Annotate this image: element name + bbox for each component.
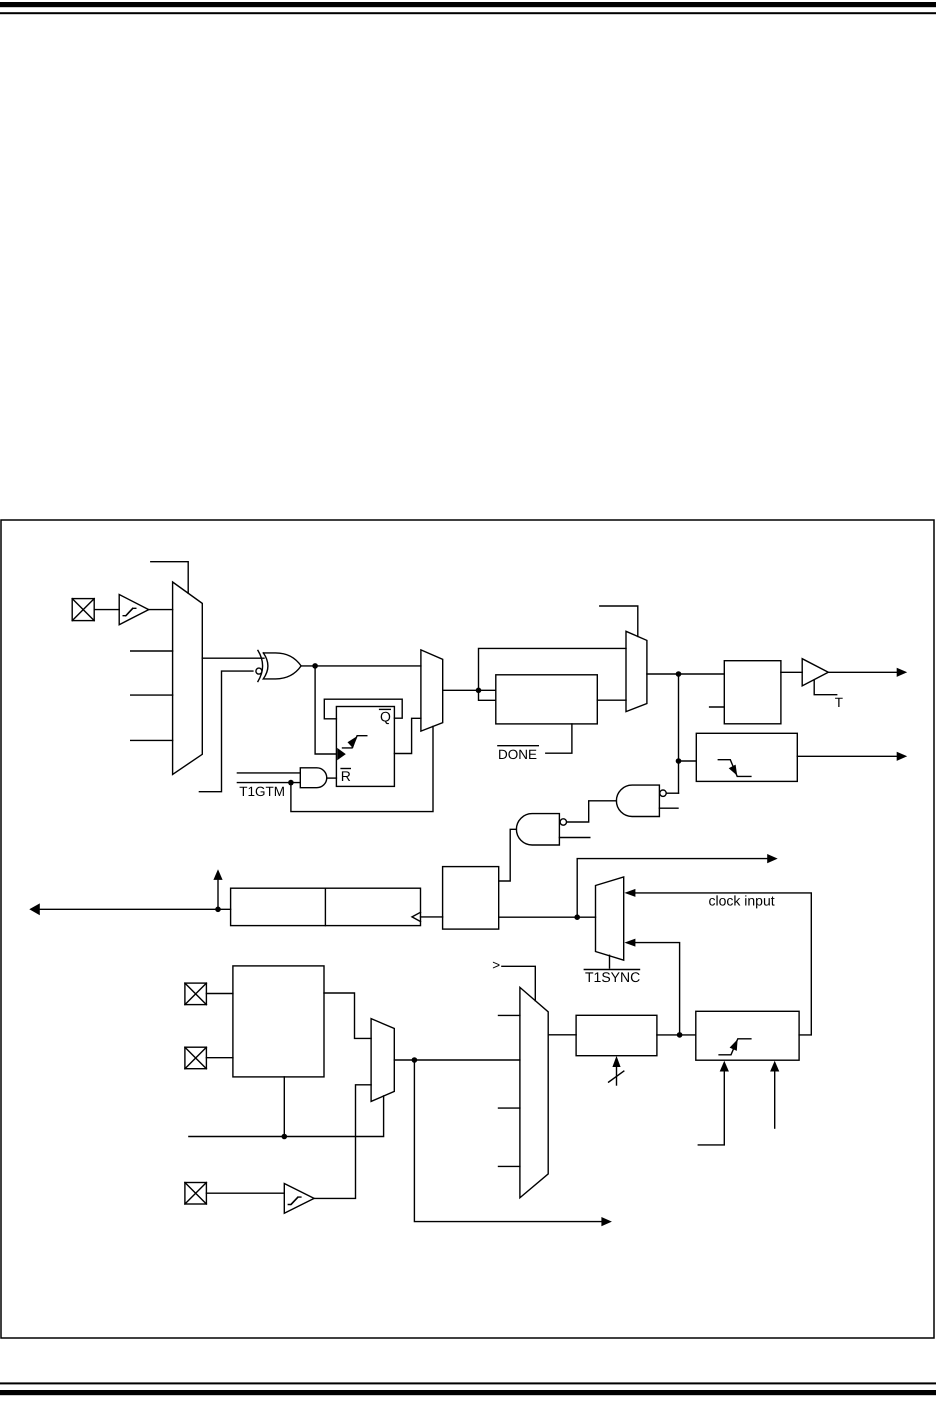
wire (interrupt arrow up) (213, 869, 222, 909)
wire (node I down, arrow right) (414, 1060, 612, 1226)
node C (676, 671, 682, 677)
wire (TMR1 bus arrow left) (29, 903, 230, 915)
wire (inverted input to U2) (199, 671, 253, 792)
wire (U15 to M6 input 2) (314, 1085, 371, 1199)
wire (U14 out to M6) (324, 993, 371, 1038)
wire (681, 760, 696, 762)
flip-flop U3 (336, 707, 394, 787)
wire (202, 657, 264, 659)
wire (327, 777, 337, 779)
wire (T control) (814, 680, 837, 695)
node T1GTM (288, 780, 294, 786)
wire (M5 select) (502, 966, 535, 1000)
wire (M1 input stub 2) (131, 650, 173, 652)
wire (206, 993, 233, 995)
wire (U9 input stub) (659, 807, 678, 809)
wire (node C down) (678, 674, 680, 793)
wire (Q feedback loop) (324, 699, 402, 719)
block U12 (prescaler) (576, 1015, 657, 1055)
wire (94, 609, 119, 611)
buffer U7 (tri-state) (802, 659, 828, 686)
svg-text:Q: Q (380, 709, 391, 725)
wire (node F up, arrow right) (577, 854, 778, 917)
mux M5 (520, 987, 548, 1197)
mux M1 (173, 582, 203, 774)
wire (394, 1059, 520, 1061)
node H (282, 1134, 288, 1140)
register TMR1 (231, 888, 421, 925)
wire (M5 input stub 3) (499, 1107, 520, 1109)
wire (M1 select) (151, 562, 188, 594)
wire (M3 select) (600, 606, 638, 636)
wire (prescaler select arrow) (609, 1056, 624, 1085)
wire (657, 1034, 696, 1036)
wire (149, 609, 173, 611)
wire (M6 select) (189, 1077, 384, 1137)
label T1SYNC bar (584, 969, 640, 985)
wire (U9 out to U10 input) (567, 801, 617, 822)
wire (647, 673, 724, 675)
wire (M5 input stub 4) (499, 1165, 520, 1167)
node F (574, 914, 580, 920)
wire (499, 916, 596, 918)
wire (548, 1034, 576, 1036)
mux M4 (T1SYNC) (596, 877, 624, 960)
mux M6 (371, 1019, 394, 1102)
wire (M1 input stub 4) (131, 739, 173, 741)
svg-text:R: R (341, 768, 351, 784)
node B (476, 688, 482, 694)
wire (301, 665, 421, 667)
wire (clock to U3) (315, 666, 335, 754)
wire (U10 out to U11) (499, 829, 517, 881)
wire (U13 clock arrow 1) (698, 1061, 729, 1145)
wire (T1GTM to M2 select) (291, 726, 433, 811)
wire (M4 input 1 arrow) (624, 889, 811, 1035)
svg-text:T1GTM: T1GTM (239, 784, 285, 799)
wire (781, 671, 802, 673)
wire (M4 select stub) (609, 955, 611, 968)
nand gate U10 (516, 814, 566, 845)
wire (597, 699, 626, 701)
node A (312, 663, 318, 669)
buffer U15 (Schmitt trigger) (284, 1184, 314, 1214)
wire (U4 input 2, T1GTM) (237, 782, 300, 784)
pin X3 (185, 1047, 207, 1069)
label R bar (pin) (341, 768, 351, 784)
svg-text:clock input: clock input (709, 892, 775, 908)
wire (443, 689, 496, 691)
svg-text:T1SYNC: T1SYNC (585, 969, 640, 985)
wire (node B to U5 input) (479, 690, 496, 700)
wire (output arrow) (797, 752, 907, 761)
wire (206, 1057, 233, 1059)
pin X1 (72, 599, 94, 621)
block U8 (falling edge detect) (696, 733, 797, 781)
block U5 (gate latch) (496, 675, 598, 724)
wire (U4 input 1) (237, 772, 300, 774)
node I (412, 1057, 418, 1063)
wire (M1 input stub 3) (131, 694, 173, 696)
svg-text:>: > (492, 958, 500, 973)
wire (666, 792, 678, 794)
pin X4 (185, 1183, 207, 1205)
block U14 (secondary oscillator) (233, 966, 324, 1077)
nand gate U9 (616, 785, 666, 816)
node G (677, 1032, 683, 1038)
label Q bar (pin) (380, 709, 391, 725)
node D (676, 758, 682, 764)
wire (M5 input stub 1) (499, 1014, 520, 1016)
wire (U3 Q to M2) (394, 718, 421, 753)
wire (U13 clock arrow 2) (770, 1061, 779, 1128)
block U13 (synchronizer) (696, 1011, 799, 1060)
wire (M4 input 2 arrow) (624, 939, 679, 1035)
node E (215, 907, 221, 913)
pin X2 (185, 983, 207, 1005)
and gate U4 (300, 768, 326, 788)
wire (421, 916, 443, 918)
mux M3 (626, 631, 647, 711)
svg-text:DONE: DONE (498, 747, 537, 762)
svg-text:T: T (835, 695, 843, 710)
buffer U1 (Schmitt trigger) (119, 595, 149, 625)
block U6 (output latch) (724, 661, 781, 724)
wire (DONE to U5) (546, 724, 572, 753)
wire (U10 input stub) (559, 837, 589, 839)
wire (U6 input stub) (710, 706, 725, 708)
wire (output arrow) (828, 668, 907, 677)
block U11 (sync latch) (443, 867, 499, 930)
wire (node B up to M3 input 1) (479, 648, 627, 690)
wire (206, 1192, 284, 1194)
xor gate U2 (256, 650, 301, 681)
mux M2 (421, 650, 443, 731)
label DONE bar (498, 746, 538, 762)
